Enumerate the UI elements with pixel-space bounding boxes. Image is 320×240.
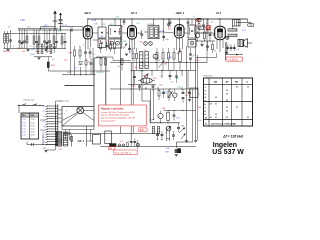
wire v x150: [150, 89, 152, 123]
rectifier V5 lead: [71, 135, 73, 147]
svg-text:0,5: 0,5: [93, 54, 96, 56]
resistor Rn1: [156, 53, 158, 60]
svg-text:Posl. izm 500 √s: Posl. izm 500 √s: [115, 151, 132, 154]
label red az1r: [71, 140, 73, 142]
resistor R23: [85, 60, 87, 65]
wire bus y26: [60, 26, 83, 28]
wire left ground bus: [4, 48, 67, 50]
capacitor C26: [89, 51, 92, 53]
wire right v pair: [224, 42, 226, 60]
svg-text:1 05: 1 05: [22, 125, 25, 127]
capacitor C6: [43, 40, 46, 42]
tall caps CT: [189, 53, 192, 55]
svg-text:1,06: 1,06: [100, 36, 104, 38]
capacitor Cz2: [182, 92, 185, 94]
oscillator coil L7: [37, 45, 39, 54]
svg-text:sprintelweij a 600+40Ωb: sprintelweij a 600+40Ωb: [211, 122, 237, 125]
svg-text:1,0: 1,0: [160, 76, 163, 78]
capacitor C40: [209, 34, 212, 36]
svg-text:merjeno pri 220 V: merjeno pri 220 V: [101, 120, 116, 122]
wire v x195: [195, 19, 197, 140]
pot circle Pz: [166, 126, 171, 131]
resistor Ra2: [110, 44, 112, 49]
wire bus y62: [110, 62, 207, 64]
svg-text:2 40: 2 40: [31, 122, 34, 124]
wire dial diag: [62, 113, 78, 121]
wire v x93: [92, 48, 94, 75]
capacitor Cz5: [173, 114, 176, 116]
wire V2 top: [131, 19, 133, 26]
wire comb right4: [58, 121, 62, 123]
wire grid2 y33: [137, 32, 142, 34]
wire al4 cath bus: [196, 57, 217, 59]
ground G3: [175, 154, 178, 156]
trimmer C3: [21, 42, 24, 44]
wire spk out: [247, 42, 252, 44]
wire v x186: [186, 46, 188, 140]
wire antenna bus: [18, 29, 71, 31]
wire comb right3: [58, 117, 62, 119]
wire V1 top: [87, 19, 89, 26]
svg-text:07k 09k: 07k 09k: [147, 24, 153, 26]
svg-text:pod 2.5+ 240 V=1gn paljenj Kpl: pod 2.5+ 240 V=1gn paljenj Kpl. i Tekt. …: [101, 117, 136, 120]
capacitor Cz6: [177, 127, 180, 129]
band switch comb: [55, 105, 57, 147]
resistor Ra6: [121, 59, 123, 65]
svg-text:1,09: 1,09: [150, 120, 154, 122]
tall coil LL1: [140, 52, 143, 69]
arrow pot P5: [168, 92, 173, 99]
wire arrow pointer: [236, 54, 239, 56]
svg-text:R91: R91: [140, 41, 143, 43]
switch S2: [166, 139, 168, 142]
tube V2 AF3: [128, 26, 137, 40]
tube V3 ABC1: [175, 25, 184, 38]
svg-text:1 05: 1 05: [22, 119, 25, 121]
svg-text:Napetite v pritolsko: Napetite v pritolsko: [101, 107, 124, 110]
wire comb down: [55, 147, 57, 151]
red box C: [108, 147, 115, 150]
tall resistor RT: [179, 52, 182, 62]
wire comb left: [40, 119, 46, 121]
ground G5: [194, 140, 197, 142]
ground Gt2: [26, 49, 29, 51]
wire psu left: [27, 144, 56, 146]
tube V4 AL4: [215, 26, 226, 39]
capacitor Cz3: [188, 92, 191, 94]
oscillator coil L9: [50, 45, 52, 54]
svg-text:2 40: 2 40: [31, 129, 34, 131]
electrolytic Cz4: [158, 113, 163, 118]
wire can mid drops: [101, 38, 103, 39]
wire grid4 y33: [196, 32, 214, 34]
output winding W1: [228, 29, 237, 31]
svg-text:an antn. 100 V d.b. (2 tacken): an antn. 100 V d.b. (2 tacken) na U=567V…: [101, 111, 135, 114]
capacitor C5: [35, 41, 38, 43]
capacitor C29: [90, 62, 93, 64]
plug symbol 2: [122, 144, 125, 147]
wire v x131: [130, 63, 132, 141]
svg-text:536: 536: [164, 64, 167, 66]
wire grid y40: [93, 39, 99, 41]
node dots tuner: [10, 30, 11, 31]
wire v x120b: [119, 126, 121, 134]
wire al4 k bus: [196, 40, 215, 42]
svg-text:GW: GW: [43, 148, 47, 150]
trim circle T3d: [149, 42, 153, 46]
capacitor Cz9: [172, 134, 175, 136]
capacitor C9b: [64, 41, 67, 43]
speaker LS: [238, 40, 244, 47]
svg-text:2 40: 2 40: [31, 125, 34, 127]
capacitor C40b: [206, 45, 209, 47]
capacitor C4: [23, 40, 26, 42]
capacitor C43: [230, 45, 232, 52]
comb wire up1: [55, 101, 57, 105]
svg-text:1 05: 1 05: [22, 122, 25, 124]
capacitor Ca1: [105, 45, 108, 47]
wire psu top: [71, 133, 161, 135]
svg-text:2 40: 2 40: [31, 132, 34, 134]
diode pair: [79, 62, 83, 65]
wire osc bottom: [34, 56, 52, 58]
wire V3 pins: [176, 38, 178, 50]
chassis line V1: [93, 58, 95, 107]
svg-text:0,1: 0,1: [171, 82, 174, 84]
resistor Rn2: [162, 53, 164, 60]
IF coil T3b: [155, 27, 158, 37]
capacitor C18: [162, 36, 165, 38]
ground G1: [225, 51, 228, 53]
wire v x192: [192, 89, 194, 142]
oscillator coil L8: [41, 45, 43, 54]
resistor R21: [79, 50, 81, 56]
ground Ga1: [125, 53, 128, 55]
ground G2: [37, 57, 40, 59]
svg-text:0,1: 0,1: [118, 66, 121, 68]
svg-text:1,5 M: 1,5 M: [155, 60, 160, 62]
wire links v2: [145, 87, 147, 89]
svg-text:Philips 500: Philips 500: [24, 99, 35, 101]
capacitor Ca2: [128, 48, 131, 50]
svg-text:220: 220: [109, 148, 112, 150]
wire ant corner: [41, 26, 56, 28]
capacitor C18b: [167, 23, 170, 25]
svg-text:5: 5: [192, 56, 193, 58]
coil L1: [4, 34, 6, 43]
resistor R22: [47, 62, 49, 68]
capacitor Cq2: [162, 92, 165, 94]
electrolytic C22: [206, 26, 210, 30]
IF coil T3a: [150, 27, 153, 37]
svg-text:1,08: 1,08: [20, 20, 25, 22]
svg-text:0,5: 0,5: [43, 121, 45, 123]
svg-text:5 09: 5 09: [176, 118, 180, 120]
wire bus y89: [110, 88, 198, 90]
capacitor C20: [187, 21, 190, 23]
capacitor C1: [9, 39, 12, 41]
resistor Rn3: [168, 53, 170, 60]
resistor R11: [248, 24, 254, 26]
wire bus y70: [131, 70, 196, 72]
resistor Ra3: [114, 43, 116, 49]
svg-text:AB: AB: [235, 81, 239, 84]
resistor R10: [198, 24, 200, 29]
small box br: [178, 149, 181, 153]
resistor Rk0: [198, 18, 202, 21]
svg-text:1 05: 1 05: [22, 132, 25, 134]
wire v x207: [206, 19, 208, 63]
svg-text:0,5: 0,5: [43, 111, 45, 113]
red info box B: [114, 150, 137, 155]
svg-text:AB: AB: [214, 81, 218, 84]
resistor Rq1: [158, 91, 160, 97]
svg-text:0,1: 0,1: [119, 41, 122, 43]
wire bottom right L: [175, 142, 177, 148]
psu box: [93, 135, 101, 145]
wire comb right1: [58, 109, 62, 111]
choke L11: [152, 127, 154, 134]
choke L12: [157, 127, 159, 134]
svg-text:1,1: 1,1: [140, 31, 143, 33]
svg-text:4,08: 4,08: [94, 24, 98, 26]
svg-text:1,0: 1,0: [43, 116, 45, 118]
resistor Ra5: [105, 59, 107, 66]
trimmer C7: [46, 42, 49, 44]
trim circle T3c: [144, 42, 148, 46]
node dots top: [87, 18, 88, 19]
IF can T5a: [188, 25, 196, 38]
capacitor Cz7: [156, 134, 159, 136]
IF can T2b: [109, 39, 122, 48]
switch S3: [126, 143, 128, 147]
wire tuner bus mid: [18, 28, 58, 30]
wire top B+ bus: [88, 18, 248, 20]
coil L6: [53, 36, 55, 44]
svg-text:1,3: 1,3: [236, 49, 239, 51]
svg-text:AZ 1: AZ 1: [77, 139, 85, 143]
svg-text:50: 50: [165, 132, 167, 134]
circled plus D1: [226, 36, 229, 39]
IF can T3: [148, 26, 159, 39]
svg-text:R40: R40: [132, 85, 135, 87]
resistor Rz2: [167, 113, 170, 121]
capacitor Cq1: [169, 75, 172, 77]
ground Gt1: [6, 49, 9, 51]
capacitor C30: [130, 141, 133, 143]
capacitor C42: [227, 45, 229, 52]
ground G4: [185, 140, 188, 142]
wire v x133: [132, 71, 134, 134]
wire v x197: [197, 55, 199, 140]
wire grid3 y33: [158, 31, 164, 33]
svg-text:520: 520: [99, 41, 102, 43]
svg-text:1,06: 1,06: [177, 87, 181, 89]
lamp E2: [136, 143, 139, 146]
capacitor Cm2: [175, 75, 178, 77]
capacitor C19: [169, 21, 172, 23]
pot arrow P4: [144, 75, 147, 78]
dial box: [62, 107, 94, 127]
resistor Rm1: [132, 54, 134, 59]
resistor Ra1: [100, 44, 102, 49]
IF can T1a: [98, 27, 106, 38]
coil L4: [33, 36, 35, 44]
svg-text:Pripletatix: Pripletatix: [204, 74, 214, 77]
wire V4 pins: [216, 40, 218, 49]
wire V1 pins: [85, 38, 87, 48]
svg-text:1,08: 1,08: [67, 72, 71, 74]
svg-text:+ 1,09 /Δ: + 1,09 /Δ: [228, 58, 238, 61]
svg-text:1,0: 1,0: [43, 126, 45, 128]
svg-text:531: 531: [143, 76, 146, 78]
red badge 545: [139, 128, 147, 132]
wire bus y74: [62, 74, 96, 76]
electrolytic Cz1: [173, 93, 177, 97]
wire v x153: [153, 89, 155, 120]
svg-text:010 070: 010 070: [97, 72, 104, 74]
resistor Rn4: [173, 53, 175, 60]
svg-text:2 40: 2 40: [31, 135, 34, 137]
coil L6b: [61, 36, 63, 44]
resistor R41: [212, 45, 214, 50]
svg-text:516: 516: [64, 60, 67, 62]
wire y46 gnd: [195, 41, 197, 46]
capacitor C14: [70, 29, 72, 32]
red box X3: [206, 26, 210, 30]
svg-text:R06 1,1: R06 1,1: [3, 51, 11, 53]
svg-text:1,06: 1,06: [165, 39, 169, 41]
arrow pot Pa: [124, 44, 128, 49]
capacitor C50: [64, 132, 67, 134]
resistor Rm2: [136, 54, 138, 59]
left table frame: [21, 113, 39, 117]
capacitor Cz8: [161, 134, 164, 136]
wire spk top: [236, 21, 251, 23]
wire V2 pins: [129, 39, 131, 50]
wire ab2 links: [74, 62, 76, 75]
small frame q: [190, 88, 198, 98]
svg-text:AF 3: AF 3: [130, 11, 138, 15]
electrolytic C41: [195, 33, 200, 38]
svg-text:0,1: 0,1: [120, 141, 123, 143]
capacitor C17: [140, 33, 143, 35]
power transformer TR1b: [62, 132, 64, 147]
svg-text:ABC 1: ABC 1: [175, 11, 185, 15]
svg-text:1 05: 1 05: [22, 129, 25, 131]
volume pot P1: [159, 61, 165, 68]
node antenna join: [54, 29, 55, 30]
ground G1b: [200, 44, 203, 46]
arrow pot P3: [179, 128, 185, 134]
svg-text:AB 2: AB 2: [83, 11, 91, 15]
antenna A1: [54, 14, 56, 30]
wire s2 drops: [166, 127, 168, 139]
wire V3 top: [178, 19, 180, 25]
red cross X1: [196, 19, 199, 22]
wire can drops: [101, 19, 103, 27]
svg-text:L 2 L 6: L 2 L 6: [138, 71, 144, 73]
tall coil LL2: [145, 52, 148, 69]
capacitor Cm1: [133, 76, 136, 78]
chassis line V2: [105, 57, 107, 106]
svg-text:US 537 W: US 537 W: [212, 149, 244, 156]
capacitor Cm3: [138, 85, 141, 87]
wire al4 mid: [196, 32, 212, 34]
svg-text:·: ·: [240, 53, 241, 57]
trimmer C27: [46, 46, 49, 48]
red info box A: [99, 105, 147, 126]
coil L5: [38, 36, 40, 44]
capacitor C28: [53, 46, 56, 48]
capacitor C2: [18, 40, 21, 42]
wire z bus2: [150, 122, 180, 124]
svg-text:pod 2.5+ 240 V=13kp smernikanj: pod 2.5+ 240 V=13kp smernikanje): [101, 115, 129, 117]
capacitor C44: [233, 45, 235, 52]
capacitor C16: [123, 20, 126, 22]
resistor R20: [74, 50, 76, 56]
capacitor C25: [84, 51, 87, 53]
node dots mid: [131, 70, 132, 71]
wire v x70: [70, 30, 72, 75]
wire bus y84: [128, 83, 156, 85]
wire v x142: [141, 71, 143, 102]
IF can T5b: [188, 40, 196, 48]
chassis line H: [65, 85, 95, 87]
svg-text:521: 521: [108, 41, 111, 43]
arrow pot Pz2: [181, 134, 186, 140]
svg-text:541: 541: [177, 53, 180, 55]
coil L2: [7, 34, 9, 43]
capacitor C51: [68, 132, 71, 134]
svg-text:1,08: 1,08: [181, 126, 185, 128]
fuse F1: [110, 144, 117, 147]
dial second line: [62, 129, 94, 131]
wire antenna bus 2: [4, 33, 67, 35]
svg-text:R06 1,1: R06 1,1: [17, 48, 25, 50]
wire v x120: [119, 19, 121, 106]
ground Gt3: [44, 49, 47, 51]
wire bus to V1: [71, 29, 84, 31]
svg-text:Δf = 128 kHz: Δf = 128 kHz: [222, 135, 243, 139]
magic eye oval: [141, 78, 153, 83]
capacitor C21: [202, 24, 205, 26]
svg-text:L,5: L,5: [193, 16, 196, 18]
plug symbol: [118, 144, 121, 147]
output transformer TR2: [233, 20, 241, 27]
wire psu verticals: [86, 126, 88, 147]
capacitor C9: [55, 41, 58, 43]
resistor Ra4: [100, 59, 102, 66]
wire V4 top: [219, 19, 221, 26]
power transformer TR1: [55, 132, 57, 147]
wire osc out: [47, 57, 49, 62]
wire links v1: [151, 71, 153, 77]
output winding W2: [228, 34, 237, 36]
red box +1.09: [226, 57, 242, 61]
electrolytic Ce0: [153, 54, 158, 59]
svg-text:1 05: 1 05: [22, 135, 25, 137]
mains box: [105, 131, 112, 144]
switch wire: [18, 104, 45, 106]
svg-text:1,0: 1,0: [43, 106, 45, 108]
tube table frame: [204, 78, 253, 126]
lamp symbol: [77, 107, 84, 114]
svg-text:1,07: 1,07: [116, 16, 120, 18]
chassis top join: [94, 57, 106, 58]
svg-text:Ingelen: Ingelen: [213, 142, 237, 149]
svg-text:546: 546: [162, 108, 165, 110]
